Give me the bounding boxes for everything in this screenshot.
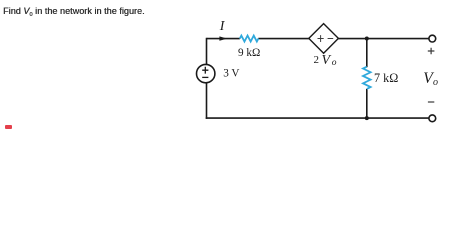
plus output (428, 48, 435, 55)
minus in source (202, 76, 208, 78)
wire resistor to diamond (258, 38, 309, 40)
terminal top (429, 35, 436, 42)
svg-text:9 kΩ: 9 kΩ (238, 47, 260, 59)
dependent source U1 diamond (309, 24, 339, 54)
junction node bottom (365, 116, 369, 120)
red marker (5, 125, 12, 129)
voltage source V1 3V (197, 64, 215, 82)
current arrow I (219, 36, 227, 40)
svg-text:o: o (332, 58, 337, 68)
resistor R1 9k zigzag (240, 36, 259, 42)
wire left vertical top (206, 38, 208, 65)
wire 7k branch top (366, 39, 368, 68)
svg-text:I: I (219, 19, 226, 34)
wire top-left segment (207, 38, 240, 40)
plus in source (202, 67, 208, 74)
plus in diamond (318, 35, 324, 42)
terminal bottom (429, 115, 436, 122)
svg-text:o: o (433, 77, 438, 88)
resistor R2 7k zigzag (363, 67, 371, 89)
junction node top (365, 37, 369, 41)
svg-text:2: 2 (314, 54, 320, 66)
svg-text:3 V: 3 V (223, 67, 239, 79)
wire 7k branch bottom (366, 89, 368, 118)
svg-text:V: V (322, 53, 332, 68)
minus output (428, 101, 434, 103)
minus in diamond (328, 38, 334, 40)
problem text (3, 6, 145, 18)
wire left vertical bottom (206, 83, 208, 119)
svg-text:7 kΩ: 7 kΩ (374, 71, 398, 85)
wire bottom (206, 117, 429, 119)
wire diamond to terminal (338, 38, 429, 40)
